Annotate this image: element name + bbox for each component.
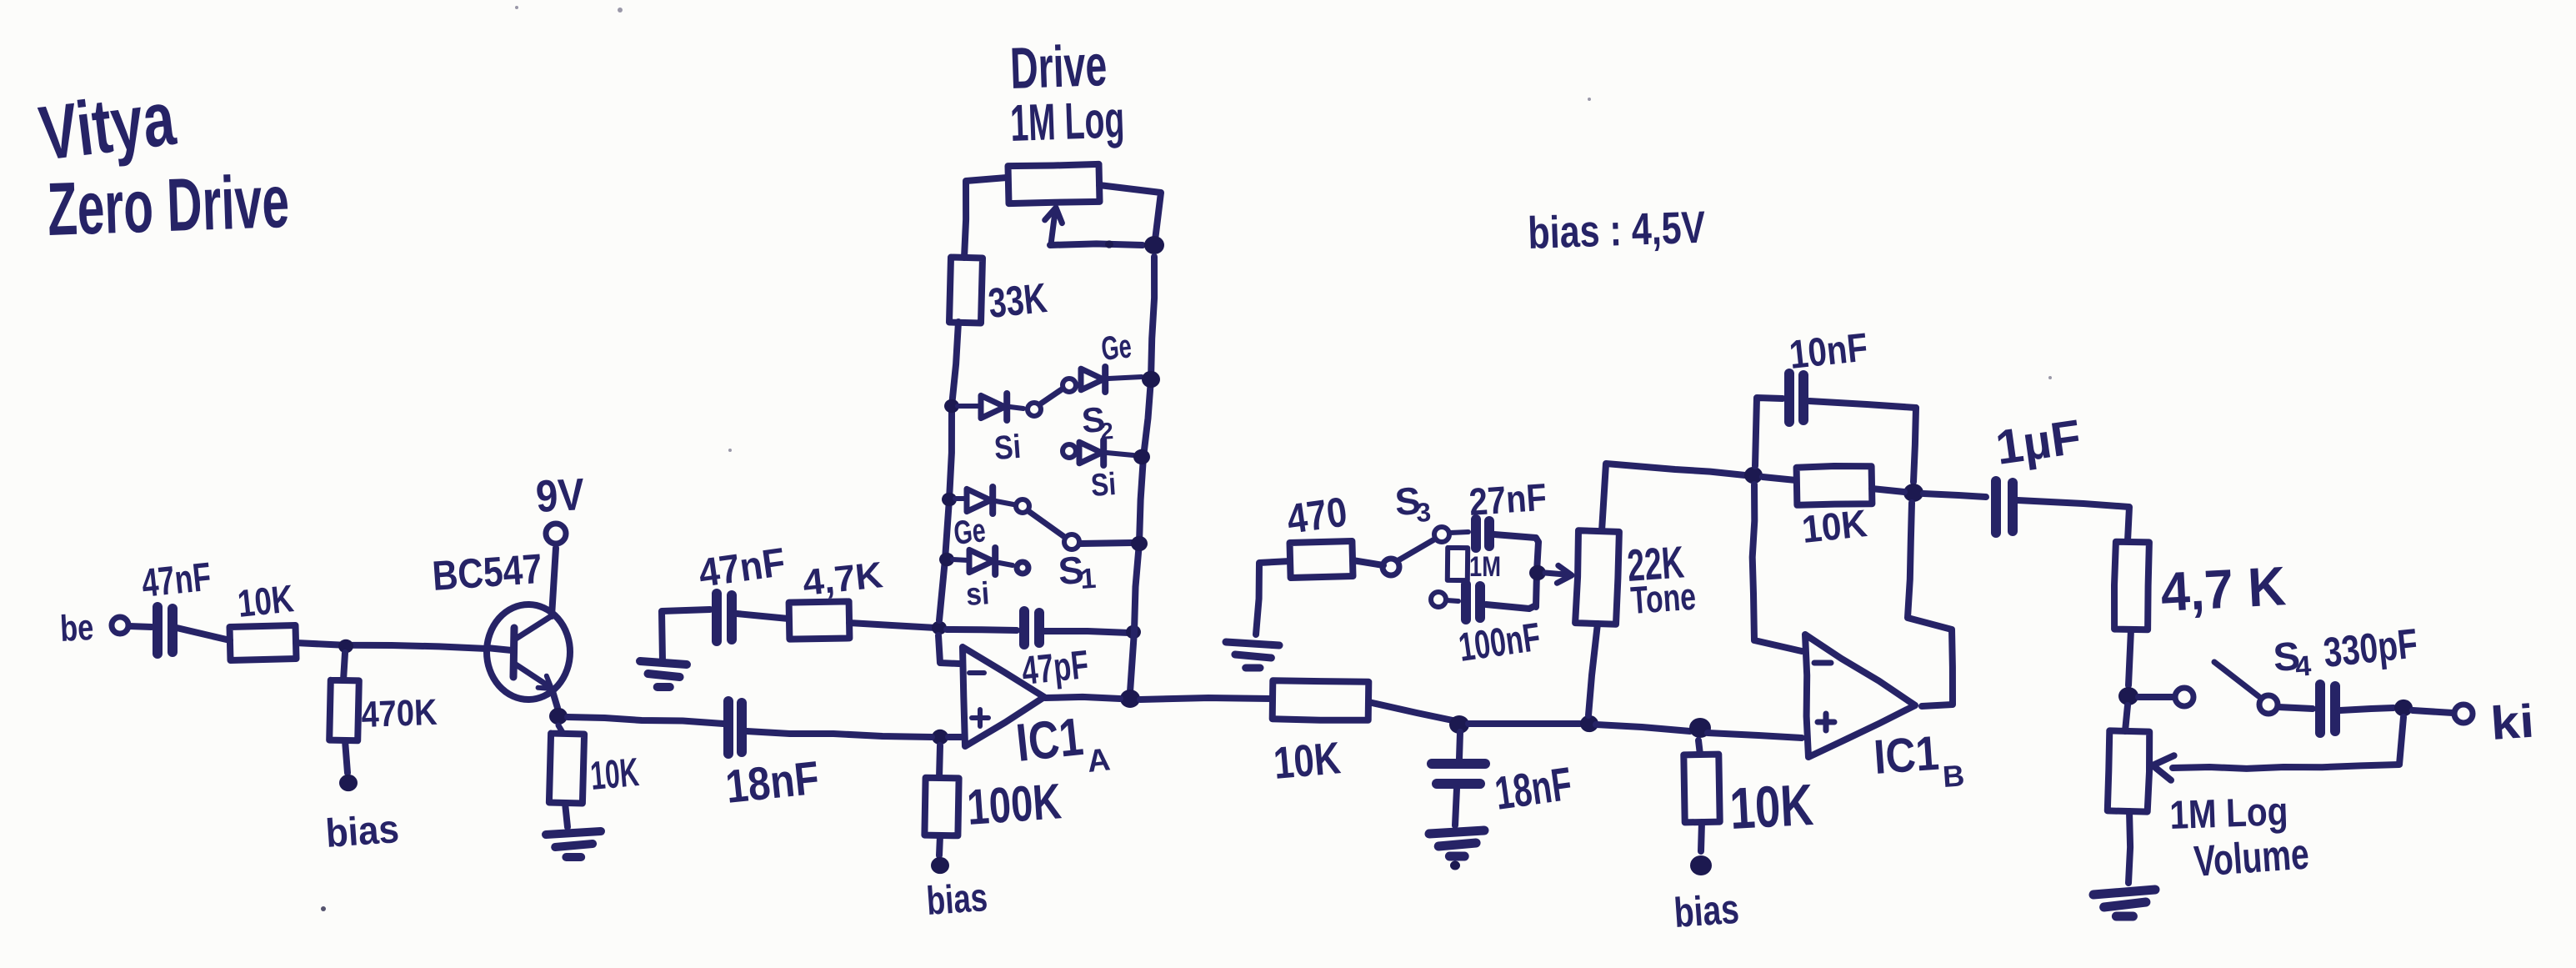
label 1M bbox=[1469, 551, 1501, 583]
label si bbox=[965, 576, 991, 613]
svg-text:BC547: BC547 bbox=[431, 545, 544, 599]
label S4 bbox=[2272, 634, 2312, 683]
wire bbox=[948, 734, 961, 740]
svg-text:Vitya: Vitya bbox=[35, 76, 180, 177]
note bias 4,5V bbox=[1527, 203, 1706, 258]
transistor emitter stroke bbox=[516, 665, 552, 689]
op-amp U1A minus sign bbox=[969, 670, 984, 675]
svg-text:10K: 10K bbox=[236, 576, 296, 625]
svg-text:bias : 4,5V: bias : 4,5V bbox=[1527, 203, 1706, 258]
label S2 bbox=[1080, 399, 1114, 444]
node fb right junction bbox=[1903, 484, 1923, 502]
node emitter junction bbox=[549, 708, 568, 725]
wire bbox=[558, 725, 563, 734]
switch S3 throw2 contact bbox=[1431, 592, 1446, 607]
wire bbox=[1763, 477, 1796, 480]
wire bbox=[1044, 631, 1129, 633]
capacitor 1uF plates bbox=[1996, 481, 2013, 533]
ground under 18nF bbox=[1429, 830, 1484, 870]
resistor 10K feedback bbox=[1797, 466, 1873, 505]
diode D5 Si bbox=[969, 548, 995, 574]
svg-text:3: 3 bbox=[1415, 497, 1432, 528]
label 1M Log bbox=[2169, 790, 2289, 838]
svg-text:10nF: 10nF bbox=[1788, 325, 1870, 378]
label S1 bbox=[1057, 548, 1097, 595]
node be (input) bbox=[59, 607, 95, 650]
wire bbox=[964, 178, 1007, 258]
label 1M Log bbox=[1009, 91, 1125, 153]
switch S1 upper contact bbox=[1016, 499, 1029, 513]
resistor 470 bbox=[1290, 541, 1353, 578]
svg-text:10K: 10K bbox=[1272, 733, 1343, 789]
switch S4 blade bbox=[2214, 662, 2258, 696]
op-amp U1B minus sign bbox=[1814, 660, 1831, 666]
label 22K bbox=[1626, 537, 1686, 591]
node ladder row1 right bbox=[1142, 371, 1160, 388]
node ladder row1c right bbox=[1133, 449, 1150, 464]
switch S3 throw1 contact bbox=[1434, 527, 1449, 542]
pot Volume wiper arrow bbox=[2153, 755, 2174, 780]
switch S4 throw contact bbox=[2259, 695, 2278, 714]
transistor collector stroke bbox=[516, 615, 553, 639]
wire bbox=[1353, 560, 1383, 565]
wire bbox=[2128, 629, 2131, 685]
svg-text:bias: bias bbox=[1673, 885, 1741, 936]
wire bbox=[1468, 720, 1580, 727]
wire bbox=[1010, 407, 1023, 409]
wire bbox=[1080, 543, 1132, 544]
node 18nF junction bbox=[1449, 715, 1469, 734]
capacitor 47nF plates bbox=[717, 594, 732, 641]
input terminal bbox=[112, 617, 128, 634]
label 100K bbox=[965, 773, 1063, 835]
node ladder row2 bbox=[942, 493, 957, 507]
wire bbox=[1588, 624, 1598, 715]
label ki bbox=[2488, 694, 2535, 749]
wire bbox=[953, 559, 968, 560]
title text Zero Drive bbox=[46, 160, 290, 252]
svg-text:47nF: 47nF bbox=[140, 555, 213, 606]
svg-text:bias: bias bbox=[324, 807, 400, 856]
resistor 33K bbox=[949, 258, 983, 324]
label 10K emitter bbox=[588, 750, 641, 799]
resistor 10K emitter bbox=[549, 734, 584, 804]
label 18nF bbox=[1492, 757, 1575, 820]
label 47pF bbox=[1020, 643, 1091, 694]
switch S3 blade bbox=[1398, 539, 1434, 560]
capacitor 47pF plates bbox=[1024, 611, 1039, 644]
label 100nF bbox=[1456, 615, 1543, 670]
resistor 10K bias IC1B bbox=[1683, 755, 1719, 823]
title text Vitya bbox=[35, 76, 180, 177]
diode D4 Ge bbox=[967, 487, 993, 514]
capacitor 18nF plates bbox=[728, 701, 742, 754]
svg-text:18nF: 18nF bbox=[723, 751, 822, 813]
svg-text:18nF: 18nF bbox=[1492, 757, 1575, 820]
label 330pF bbox=[2321, 619, 2419, 676]
label 470 bbox=[1284, 488, 1350, 542]
resistor 10K mid bbox=[1273, 680, 1369, 720]
wire bbox=[1913, 408, 1916, 482]
wire bbox=[939, 835, 940, 855]
node minus junction bbox=[932, 621, 947, 635]
wire bbox=[1809, 401, 1916, 408]
svg-text:Drive: Drive bbox=[1009, 33, 1108, 101]
wire bbox=[958, 404, 980, 409]
pot Drive wiper arrow bbox=[1045, 208, 1063, 244]
svg-text:Zero Drive: Zero Drive bbox=[46, 160, 290, 252]
wire base bbox=[487, 648, 512, 650]
pot Tone wiper arrow bbox=[1545, 565, 1572, 583]
diode D3 Si bbox=[1079, 440, 1103, 465]
ground under 470 bbox=[1226, 642, 1279, 668]
capacitor 47nF input plates bbox=[158, 607, 173, 654]
wire bbox=[1708, 733, 1802, 738]
label 27nF bbox=[1468, 475, 1548, 524]
output terminal bbox=[2454, 705, 2473, 723]
svg-text:4,7 K: 4,7 K bbox=[2159, 554, 2288, 623]
wire bbox=[1450, 532, 1468, 533]
svg-text:Si: Si bbox=[1090, 467, 1118, 504]
capacitor 100nF plates bbox=[1466, 584, 1480, 619]
svg-text:4: 4 bbox=[2294, 650, 2313, 683]
resistor 4,7K bbox=[789, 601, 850, 639]
label 47nF bbox=[140, 555, 213, 606]
wire bbox=[177, 628, 230, 640]
label Tone bbox=[1629, 574, 1697, 622]
capacitor 27nF plates bbox=[1476, 519, 1489, 548]
ground for 47nF bbox=[640, 661, 687, 687]
wire bbox=[1099, 185, 1161, 240]
wire right rail bbox=[1130, 257, 1154, 692]
svg-text:1M Log: 1M Log bbox=[1009, 91, 1125, 153]
svg-text:10K: 10K bbox=[1800, 501, 1869, 551]
wire bbox=[662, 609, 710, 661]
svg-text:Volume: Volume bbox=[2193, 830, 2311, 885]
switch S1 blade bbox=[1028, 511, 1063, 536]
resistor 100K bbox=[924, 778, 958, 836]
transistor Q1 BC547 body bbox=[487, 604, 570, 700]
wire bbox=[1872, 489, 1904, 492]
wire bbox=[1908, 503, 1953, 706]
wire collector bbox=[552, 548, 556, 616]
label bias bbox=[925, 875, 989, 924]
svg-text:B: B bbox=[1942, 758, 1966, 794]
svg-text:Ge: Ge bbox=[1099, 328, 1133, 368]
label 10nF bbox=[1788, 325, 1870, 378]
potentiometer Drive body bbox=[1008, 164, 1100, 203]
transistor base bar bbox=[513, 628, 514, 677]
wire bbox=[747, 731, 932, 737]
svg-text:10K: 10K bbox=[588, 750, 641, 799]
wire bbox=[1459, 732, 1460, 759]
diode D1 Si bbox=[981, 394, 1007, 420]
bias blob IC1B bbox=[1690, 855, 1712, 875]
node plus junction bbox=[932, 730, 948, 745]
node tone-bottom junction bbox=[1580, 715, 1598, 732]
switch S1 throw contact bbox=[1064, 534, 1079, 549]
op-amp U1A triangle bbox=[963, 647, 1044, 746]
node fb left junction bbox=[1744, 467, 1763, 484]
ground output bbox=[2093, 890, 2155, 916]
wire bbox=[2018, 500, 2129, 541]
wire bbox=[343, 653, 345, 680]
resistor 1M bbox=[1448, 548, 1468, 580]
svg-text:470K: 470K bbox=[361, 692, 438, 735]
wire bbox=[1447, 600, 1458, 601]
switch S1 lower contact bbox=[1017, 562, 1028, 574]
svg-text:IC1: IC1 bbox=[1872, 726, 1940, 785]
wire bbox=[1494, 534, 1538, 542]
label IC1B bbox=[1872, 726, 1965, 794]
svg-text:27nF: 27nF bbox=[1468, 475, 1548, 524]
label Ge bbox=[1099, 328, 1133, 368]
switch S4 pole contact bbox=[2175, 688, 2193, 706]
label Ge bbox=[952, 512, 987, 552]
wire bbox=[1596, 725, 1690, 731]
node A junction bbox=[338, 639, 353, 654]
wire bbox=[849, 623, 936, 628]
label bias bbox=[324, 807, 400, 856]
label Volume bbox=[2193, 830, 2311, 885]
wire emitter bbox=[553, 691, 558, 708]
wire bbox=[568, 717, 723, 724]
capacitor 330pF plates bbox=[2320, 685, 2335, 733]
wire bbox=[1753, 484, 1802, 651]
op-amp U1A plus sign bbox=[972, 710, 988, 726]
svg-text:9V: 9V bbox=[534, 469, 585, 522]
wire bbox=[737, 614, 788, 619]
node bias-r junction bbox=[1689, 718, 1711, 738]
label S3 bbox=[1393, 479, 1432, 528]
svg-text:100K: 100K bbox=[965, 773, 1063, 835]
9V terminal bbox=[546, 524, 566, 544]
label 10K mid bbox=[1272, 733, 1343, 789]
label 4,7K out bbox=[2159, 554, 2288, 623]
wire bbox=[345, 740, 348, 773]
label bias bbox=[1673, 885, 1741, 936]
wire bbox=[565, 803, 568, 827]
wire bbox=[1698, 740, 1700, 755]
svg-text:ki: ki bbox=[2488, 694, 2535, 749]
label 9V bbox=[534, 469, 585, 522]
label 10K fb bbox=[1800, 501, 1869, 551]
label BC547 bbox=[431, 545, 544, 599]
label 1uF bbox=[1993, 409, 2084, 475]
svg-text:A: A bbox=[1086, 742, 1113, 780]
wire bbox=[955, 496, 966, 501]
wire bbox=[1536, 542, 1538, 607]
svg-text:330pF: 330pF bbox=[2321, 619, 2419, 676]
switch S2 pole contact bbox=[1028, 403, 1041, 416]
op-amp U1B plus sign bbox=[1818, 714, 1834, 730]
svg-text:33K: 33K bbox=[986, 274, 1048, 327]
svg-text:Ge: Ge bbox=[952, 512, 987, 552]
label Si bbox=[1090, 467, 1118, 504]
wire bbox=[2340, 708, 2393, 710]
wire bbox=[999, 563, 1013, 565]
svg-text:bias: bias bbox=[925, 875, 989, 924]
wire bbox=[947, 629, 1017, 630]
svg-text:be: be bbox=[59, 607, 95, 650]
node volume top junction bbox=[2118, 687, 2138, 705]
label 10K bbox=[236, 576, 296, 625]
switch S2 throw contact bbox=[1063, 379, 1076, 392]
node ladder row2 right bbox=[1131, 536, 1148, 551]
wire bbox=[2128, 811, 2130, 883]
capacitor 18nF shunt plates bbox=[1432, 764, 1485, 784]
capacitor 10nF plates bbox=[1789, 374, 1803, 422]
wire bbox=[939, 745, 940, 778]
node ladder row3 bbox=[939, 553, 954, 567]
wire bbox=[1045, 697, 1120, 699]
svg-text:1M Log: 1M Log bbox=[2169, 790, 2289, 838]
wire bbox=[938, 635, 959, 664]
svg-text:Tone: Tone bbox=[1629, 574, 1697, 622]
potentiometer Volume body bbox=[2108, 705, 2149, 812]
bias blob left bbox=[339, 775, 358, 791]
label 4,7K bbox=[801, 554, 885, 604]
svg-text:10K: 10K bbox=[1728, 772, 1815, 841]
wire bbox=[1107, 453, 1133, 455]
label Drive bbox=[1009, 33, 1108, 101]
svg-text:4,7K: 4,7K bbox=[801, 554, 885, 604]
wire bbox=[1486, 604, 1536, 609]
wire bbox=[2278, 707, 2313, 709]
svg-text:si: si bbox=[965, 576, 991, 613]
wire bbox=[2413, 710, 2453, 713]
label 33K bbox=[986, 274, 1048, 327]
label 47nF bbox=[696, 540, 788, 596]
wire bbox=[296, 643, 487, 649]
node tone wiper junction bbox=[1529, 565, 1546, 580]
wire bbox=[1755, 398, 1783, 466]
switch S2 blade bbox=[1041, 389, 1062, 404]
label IC1A bbox=[1013, 706, 1112, 780]
node wiper junction bbox=[1144, 236, 1164, 254]
svg-text:470: 470 bbox=[1284, 488, 1350, 542]
potentiometer Tone body bbox=[1575, 530, 1619, 624]
wire bbox=[1108, 377, 1142, 379]
bias blob IC1A bbox=[931, 857, 949, 874]
node output junction bbox=[2394, 700, 2413, 716]
wire wiper bbox=[1050, 240, 1143, 248]
resistor 470K bbox=[329, 680, 359, 741]
resistor 10K input bbox=[230, 625, 297, 660]
svg-text:1: 1 bbox=[1079, 563, 1098, 595]
wire bbox=[1455, 789, 1457, 825]
label 470K bbox=[361, 692, 438, 735]
wire bbox=[1140, 698, 1272, 700]
node ladder row1 bbox=[944, 399, 959, 414]
wire bbox=[1923, 494, 1986, 497]
resistor 4,7K output bbox=[2114, 542, 2149, 630]
wire bbox=[996, 501, 1013, 504]
diode D2 Ge bbox=[1081, 367, 1105, 392]
node 47pF-rail junction bbox=[1126, 625, 1141, 639]
label Si bbox=[993, 429, 1023, 467]
wire bbox=[2138, 694, 2174, 700]
wire bbox=[2173, 717, 2403, 769]
switch S3 pole contact bbox=[1383, 559, 1399, 575]
label 10K bbox=[1728, 772, 1815, 841]
op-amp U1B triangle bbox=[1805, 634, 1915, 757]
svg-text:IC1: IC1 bbox=[1013, 706, 1086, 773]
ground bbox=[546, 831, 601, 857]
wire bbox=[129, 626, 152, 627]
wire bbox=[1256, 561, 1290, 634]
node IC1A output junction bbox=[1120, 690, 1140, 708]
wire bbox=[1701, 822, 1702, 851]
label 18nF bbox=[723, 751, 822, 813]
switch S2 lower contact bbox=[1063, 444, 1076, 458]
wire left rail bbox=[939, 322, 958, 620]
svg-text:1M: 1M bbox=[1469, 551, 1501, 583]
svg-text:Si: Si bbox=[993, 429, 1023, 467]
wire bbox=[1602, 464, 1745, 531]
wire bbox=[1368, 702, 1453, 720]
